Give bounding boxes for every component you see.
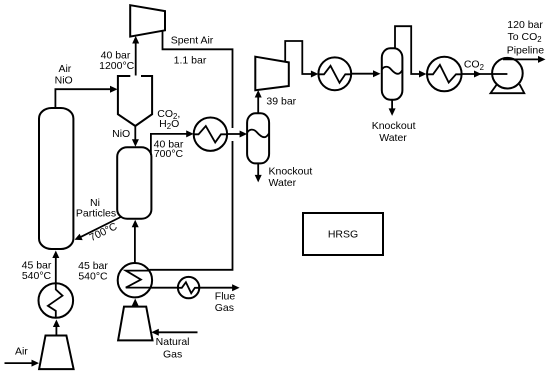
svg-text:540°C: 540°C: [78, 270, 108, 282]
svg-text:To CO2: To CO2: [508, 31, 542, 44]
svg-text:Gas: Gas: [215, 302, 234, 314]
svg-text:NiO: NiO: [55, 75, 73, 87]
svg-text:Gas: Gas: [163, 348, 182, 360]
svg-text:Flue: Flue: [215, 291, 236, 303]
svg-text:Water: Water: [379, 132, 407, 144]
svg-text:Air: Air: [15, 346, 28, 358]
svg-text:1.1 bar: 1.1 bar: [174, 55, 207, 67]
svg-text:120 bar: 120 bar: [507, 19, 543, 31]
svg-text:700°C: 700°C: [154, 148, 184, 160]
svg-text:1200°C: 1200°C: [99, 60, 135, 72]
svg-text:NiO: NiO: [112, 128, 130, 140]
svg-text:Knockout: Knockout: [372, 120, 416, 132]
svg-text:540°C: 540°C: [22, 270, 52, 282]
svg-text:Air: Air: [58, 63, 71, 75]
svg-text:HRSG: HRSG: [328, 229, 358, 241]
svg-text:Spent Air: Spent Air: [171, 35, 214, 47]
svg-text:Natural: Natural: [156, 336, 190, 348]
svg-text:Pipeline: Pipeline: [507, 44, 545, 56]
svg-text:Particles: Particles: [76, 208, 116, 220]
svg-text:Water: Water: [269, 177, 297, 189]
svg-text:39 bar: 39 bar: [266, 96, 296, 108]
svg-text:Knockout: Knockout: [269, 165, 313, 177]
